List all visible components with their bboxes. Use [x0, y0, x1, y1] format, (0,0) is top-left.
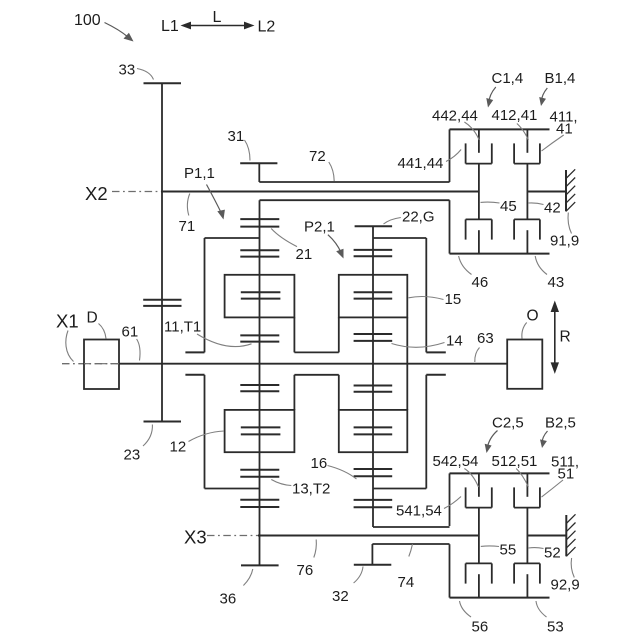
label P1,1 with arrow — [184, 165, 225, 220]
label 36 — [220, 569, 253, 608]
label 53 — [536, 601, 564, 636]
label 14 — [392, 333, 463, 350]
svg-text:512,51: 512,51 — [492, 453, 538, 470]
gear 31 bar and stem — [240, 163, 277, 182]
svg-text:B2,5: B2,5 — [545, 415, 576, 432]
label 91,9 — [550, 213, 579, 250]
svg-text:52: 52 — [544, 545, 561, 562]
gear pair 21 — [240, 219, 279, 227]
label 12 — [170, 431, 225, 456]
label 23 — [124, 425, 153, 464]
sleeve 72 lower line — [260, 199, 450, 201]
coupling gear pair on shaft 33-23 — [143, 300, 181, 306]
svg-text:91,9: 91,9 — [550, 233, 579, 250]
sleeve 74 upper line — [373, 526, 450, 528]
svg-text:92,9: 92,9 — [551, 577, 580, 594]
grounded wall 92,9 at axis X3 — [527, 514, 575, 556]
label 45 — [481, 198, 517, 215]
svg-text:P1,1: P1,1 — [184, 165, 215, 182]
svg-text:C1,4: C1,4 — [492, 70, 524, 87]
label 512,51 — [492, 453, 538, 487]
svg-text:53: 53 — [547, 619, 564, 636]
sleeve 72 upper line — [259, 181, 449, 183]
label C2,5 with arrow — [485, 415, 524, 454]
drive unit D box — [84, 340, 119, 390]
svg-text:16: 16 — [311, 455, 328, 472]
right center vertical shaft (22/14/16 stack) — [372, 226, 374, 527]
clutch block C2/B2 on axis X3 — [450, 473, 550, 597]
svg-text:31: 31 — [228, 128, 245, 145]
label 31 — [228, 128, 251, 161]
gear pair below 22 — [354, 250, 393, 256]
svg-text:441,44: 441,44 — [398, 155, 444, 172]
label X3 — [184, 527, 207, 548]
svg-text:72: 72 — [309, 148, 326, 165]
svg-text:O: O — [527, 308, 539, 325]
svg-text:46: 46 — [472, 274, 489, 291]
svg-text:36: 36 — [220, 591, 237, 608]
gear pair below 13,T2 — [240, 500, 279, 507]
label 411,41 — [542, 109, 578, 152]
label B1,4 with arrow — [539, 70, 575, 106]
label 100 with arrow — [74, 12, 134, 42]
label 541,54 — [396, 497, 461, 520]
gear pair in upper-left carrier box — [241, 292, 281, 298]
carrier output vertical x=407 crossing X1 — [406, 317, 408, 410]
shaft 61 on axis X1 — [119, 363, 507, 365]
gear pair 14 — [354, 334, 393, 341]
svg-text:14: 14 — [446, 333, 463, 350]
label 442,44 — [432, 107, 479, 140]
svg-text:23: 23 — [124, 447, 141, 464]
right sleeve lower: bar, vertical, connector — [373, 375, 446, 489]
svg-text:P2,1: P2,1 — [304, 219, 335, 236]
svg-text:541,54: 541,54 — [396, 503, 442, 520]
gear 36 bar — [241, 564, 279, 566]
label 56 — [460, 601, 489, 636]
svg-text:74: 74 — [398, 574, 415, 591]
svg-text:X1: X1 — [56, 311, 79, 332]
label B2,5 with arrow — [540, 415, 576, 449]
svg-text:542,54: 542,54 — [433, 453, 479, 470]
svg-text:33: 33 — [119, 62, 136, 79]
gear 22 bar — [355, 225, 393, 227]
right sleeve upper: connector, vertical, bar — [373, 238, 446, 352]
gear pair below 21 — [240, 250, 279, 256]
label 441,44 — [398, 150, 462, 173]
gear pair 11,T1 — [240, 335, 279, 341]
svg-text:R: R — [560, 329, 571, 346]
svg-text:51: 51 — [558, 466, 575, 483]
label 52 — [528, 545, 560, 562]
label 21 — [271, 229, 312, 264]
svg-text:X3: X3 — [184, 527, 207, 548]
gear pair below X1 on left shaft — [240, 385, 279, 391]
label D with leader — [87, 310, 107, 339]
svg-text:L1: L1 — [161, 18, 179, 35]
gear 23 bar — [144, 421, 182, 423]
svg-text:L2: L2 — [258, 19, 276, 36]
label 43 — [535, 256, 564, 291]
axis X1 dash-dot line — [62, 363, 119, 365]
label P2,1 with arrow — [304, 219, 344, 259]
svg-text:C2,5: C2,5 — [492, 415, 524, 432]
label 11,T1 — [164, 319, 252, 347]
svg-text:D: D — [87, 310, 98, 327]
svg-text:100: 100 — [74, 12, 101, 29]
svg-text:21: 21 — [296, 246, 313, 263]
clutch block C1/B1 on axis X2 — [450, 129, 550, 253]
svg-text:22,G: 22,G — [402, 209, 435, 226]
shaft 76 on axis X3 — [258, 535, 478, 537]
carrier bridge below X1 — [294, 375, 338, 410]
svg-text:71: 71 — [179, 218, 196, 235]
label 61 — [122, 324, 141, 361]
svg-text:63: 63 — [477, 330, 494, 347]
gear pair below 16 — [354, 500, 393, 507]
label 33 — [119, 62, 154, 80]
gear pair below X1 on right shaft — [354, 386, 393, 392]
svg-text:X2: X2 — [85, 183, 108, 204]
planetary P2 upper-right carrier box — [339, 275, 408, 318]
svg-text:13,T2: 13,T2 — [292, 481, 330, 498]
label 13,T2 — [271, 480, 330, 498]
label 63 — [475, 330, 494, 362]
gear pair in lower-right carrier box — [354, 427, 393, 434]
label 542,54 — [433, 453, 479, 487]
grounded wall 91,9 at axis X2 — [527, 169, 575, 211]
label C1,4 with arrow — [486, 70, 523, 108]
label R — [560, 329, 571, 346]
arrow R double-headed — [551, 301, 559, 374]
label 15 — [409, 291, 462, 308]
label 74 — [398, 544, 415, 591]
gear 32 stem and bar — [354, 544, 392, 565]
label 511,51 — [542, 454, 580, 498]
shaft 71 on axis X2 — [161, 191, 479, 193]
label O with leader — [522, 308, 539, 339]
label 46 — [459, 256, 489, 291]
svg-text:15: 15 — [445, 291, 462, 308]
gear pair 16 — [354, 469, 393, 476]
left center vertical shaft (21/11/13 stack) — [259, 200, 261, 565]
svg-text:12: 12 — [170, 439, 187, 456]
svg-text:56: 56 — [472, 619, 489, 636]
svg-text:412,41: 412,41 — [492, 107, 538, 124]
label 71 — [179, 194, 196, 236]
label 42 — [528, 200, 560, 217]
label 22,G — [384, 209, 435, 226]
label 32 — [332, 567, 363, 606]
lower-left carrier box — [225, 410, 295, 452]
gear pair in upper-right carrier box — [354, 292, 393, 298]
output O box — [507, 340, 542, 389]
svg-text:42: 42 — [544, 200, 561, 217]
svg-text:76: 76 — [297, 562, 314, 579]
label 55 — [481, 542, 516, 559]
svg-text:442,44: 442,44 — [432, 107, 478, 124]
svg-text:41: 41 — [556, 121, 573, 138]
svg-text:B1,4: B1,4 — [545, 70, 576, 87]
label 76 — [297, 540, 317, 580]
svg-text:43: 43 — [548, 274, 565, 291]
svg-text:55: 55 — [500, 542, 517, 559]
axis X3 dash-dot line — [207, 535, 259, 537]
lower-right carrier box — [339, 410, 408, 452]
label X1 with leader — [56, 311, 79, 362]
left sleeve lower: bar, vertical, connector — [185, 375, 259, 489]
svg-text:45: 45 — [500, 198, 517, 215]
svg-text:11,T1: 11,T1 — [164, 319, 201, 336]
label L with double arrow L1-L2 — [161, 9, 275, 36]
carrier bridge above X1 — [294, 317, 338, 352]
gear pair in lower-left carrier box — [241, 427, 281, 434]
label 412,41 — [492, 107, 538, 140]
left sleeve upper: connector, vertical, bar — [185, 238, 259, 352]
shaft 33-23 vertical — [161, 83, 163, 421]
label 92,9 — [551, 558, 580, 594]
label 72 — [309, 148, 334, 181]
axis X2 dash-dot line — [112, 191, 162, 193]
planetary P1 upper-left carrier box — [225, 275, 295, 318]
gear pair 13,T2 — [240, 470, 279, 477]
svg-text:32: 32 — [332, 588, 349, 605]
sleeve 74 lower line — [372, 543, 449, 545]
label 16 — [311, 455, 357, 479]
gear 33 bar — [144, 82, 182, 84]
label X2 — [85, 183, 108, 204]
svg-text:61: 61 — [122, 324, 139, 341]
svg-text:L: L — [213, 9, 222, 26]
